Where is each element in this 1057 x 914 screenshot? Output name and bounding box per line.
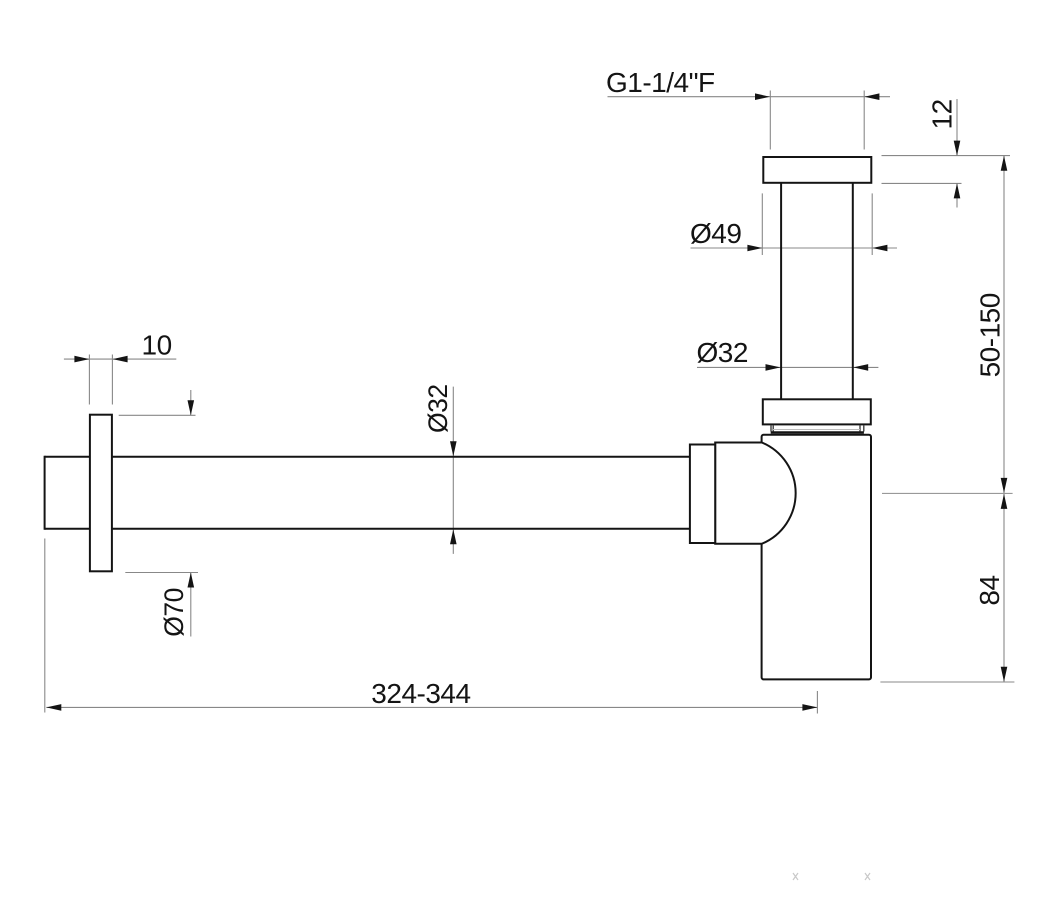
svg-text:12: 12 <box>927 99 958 129</box>
svg-text:84: 84 <box>974 575 1005 605</box>
svg-text:G1-1/4"F: G1-1/4"F <box>606 67 715 98</box>
svg-text:10: 10 <box>142 330 172 361</box>
svg-text:Ø70: Ø70 <box>159 588 189 637</box>
svg-text:50-150: 50-150 <box>974 293 1005 377</box>
svg-text:Ø32: Ø32 <box>423 384 453 433</box>
svg-text:324-344: 324-344 <box>371 678 470 709</box>
svg-text:Ø32: Ø32 <box>697 337 748 368</box>
svg-text:Ø49: Ø49 <box>690 218 741 249</box>
